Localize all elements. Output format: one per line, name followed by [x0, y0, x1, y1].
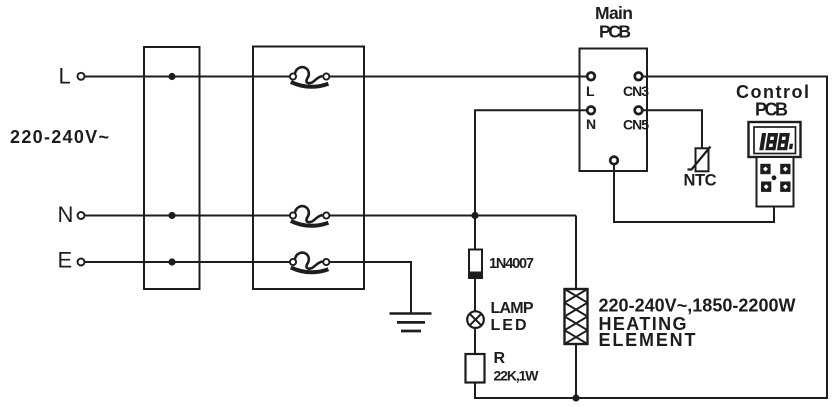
svg-text:CN5: CN5	[623, 117, 649, 133]
wire LED to resistor	[474, 328, 476, 354]
heating element	[565, 289, 588, 344]
wire heating element to bottom rail	[575, 344, 577, 398]
svg-text:L: L	[586, 83, 595, 99]
ground	[390, 314, 432, 332]
button SW4	[780, 182, 790, 192]
button SW2	[780, 164, 790, 174]
wire CN3 to right side down	[642, 77, 827, 399]
keypad center dot	[772, 175, 777, 180]
button SW1	[760, 164, 770, 174]
node E terminal	[78, 259, 85, 266]
junction dot N	[168, 212, 175, 219]
wire resistor to bottom rail	[474, 383, 476, 400]
wire E out of switch box	[326, 261, 366, 263]
junction dot bottom rail	[572, 394, 579, 401]
wire L into switch box	[252, 76, 294, 78]
svg-text:LAMP: LAMP	[491, 300, 534, 317]
switch S2 on N	[290, 206, 330, 226]
svg-text:CN3: CN3	[623, 83, 649, 99]
LED lamp	[467, 311, 484, 328]
svg-text:220-240V~: 220-240V~	[10, 127, 109, 147]
wire N rail to heating element	[575, 216, 577, 290]
wire L stub into Main PCB	[579, 76, 589, 78]
NTC thermistor	[688, 147, 711, 172]
wire diode branch top	[474, 216, 476, 250]
Control PCB keypad	[757, 157, 794, 207]
terminal block box	[144, 47, 200, 289]
svg-text:1N4007: 1N4007	[489, 256, 534, 272]
wire L rail	[85, 76, 589, 78]
button SW3	[761, 182, 771, 192]
svg-text:220-240V~,1850-2200W: 220-240V~,1850-2200W	[599, 296, 796, 316]
wire Main PCB bottom to Control PCB	[614, 164, 774, 222]
diode D1 1N4007	[469, 250, 483, 279]
pin CN3	[635, 73, 643, 81]
wire N rail	[85, 215, 577, 217]
junction dot L	[168, 73, 175, 80]
svg-text:22K,1W: 22K,1W	[494, 368, 540, 384]
pin N of Main PCB	[587, 107, 595, 115]
wire diode to LED	[474, 278, 476, 312]
wire L through terminal block	[143, 76, 201, 78]
node L terminal	[78, 73, 85, 80]
wire E into switch box	[252, 261, 294, 263]
svg-text:ELEMENT: ELEMENT	[599, 330, 696, 350]
Main PCB box	[580, 49, 648, 172]
wire CN5 to NTC	[642, 110, 702, 148]
switch S1 on L	[290, 67, 330, 87]
pin CN5	[635, 107, 643, 115]
switch S3 on E	[290, 253, 330, 273]
wire bottom rail	[475, 397, 828, 399]
wire E through terminal block	[143, 261, 201, 263]
wire N into switch box	[252, 215, 294, 217]
svg-text:PCB: PCB	[755, 100, 788, 120]
junction dot E	[168, 258, 175, 265]
Control PCB display module U2	[749, 122, 801, 157]
pin bottom of Main PCB	[610, 157, 618, 165]
node N terminal	[78, 212, 85, 219]
svg-text:Main: Main	[595, 3, 633, 23]
svg-text:E: E	[58, 248, 73, 273]
svg-text:N: N	[586, 116, 596, 132]
svg-text:N: N	[58, 202, 74, 227]
switch box	[253, 47, 364, 290]
svg-text:LED: LED	[491, 317, 527, 334]
pin L of Main PCB	[587, 73, 595, 81]
svg-text:L: L	[59, 64, 71, 89]
svg-text:PCB: PCB	[599, 22, 631, 42]
wire N terminal to Main PCB N pin	[475, 110, 588, 215]
svg-text:NTC: NTC	[684, 172, 717, 190]
wire N out of switch box	[326, 215, 366, 217]
junction dot N branch	[471, 212, 478, 219]
wire E rail	[85, 261, 412, 263]
wire N through terminal block	[143, 215, 201, 217]
svg-text:R: R	[494, 350, 506, 367]
wire L out of switch box	[326, 76, 366, 78]
resistor R	[466, 354, 485, 383]
wire E to ground	[364, 262, 411, 314]
